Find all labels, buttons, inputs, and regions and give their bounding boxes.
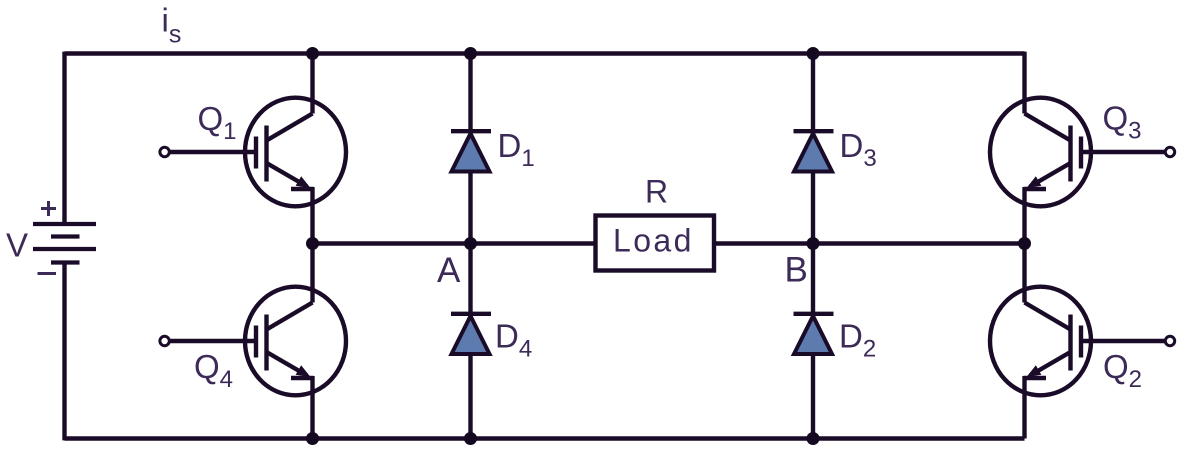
wire left rail lower xyxy=(62,263,66,441)
wire mid rail left (node to load) xyxy=(313,241,596,245)
svg-text:Q3: Q3 xyxy=(1103,100,1142,145)
svg-text:D1: D1 xyxy=(498,127,535,172)
node mid-right junction xyxy=(1018,237,1031,250)
svg-text:Q4: Q4 xyxy=(194,348,233,393)
svg-text:A: A xyxy=(437,251,461,290)
resistor R load box xyxy=(596,216,715,271)
diode D3 xyxy=(794,52,834,244)
svg-text:D4: D4 xyxy=(495,318,532,363)
svg-text:Q2: Q2 xyxy=(1103,348,1142,393)
transistor Q3 xyxy=(990,52,1175,244)
diode D1 xyxy=(451,52,491,244)
wire mid rail right (load to right rail) xyxy=(714,241,1025,245)
svg-text:D3: D3 xyxy=(840,127,877,172)
battery minus sign xyxy=(38,272,57,275)
node A xyxy=(464,237,477,250)
node top D3 junction xyxy=(807,47,820,60)
transistor Q4 xyxy=(160,244,346,439)
node B xyxy=(807,237,820,250)
node bottom-left junction xyxy=(306,432,319,445)
node mid-left junction xyxy=(306,237,319,250)
svg-text:V: V xyxy=(6,227,28,264)
svg-text:Q1: Q1 xyxy=(198,100,237,145)
wire left rail upper xyxy=(62,52,66,224)
node top D1 junction xyxy=(464,47,477,60)
wire bottom rail xyxy=(65,436,1025,440)
svg-text:R: R xyxy=(645,174,668,210)
diode D2 xyxy=(794,244,834,439)
transistor Q1 xyxy=(160,52,346,244)
battery V xyxy=(33,224,96,263)
node bottom D2 junction xyxy=(807,432,820,445)
svg-text:B: B xyxy=(785,251,808,290)
battery plus sign xyxy=(41,201,56,216)
svg-text:Load: Load xyxy=(613,223,694,259)
svg-text:D2: D2 xyxy=(839,318,876,363)
node bottom D4 junction xyxy=(464,432,477,445)
svg-text:is: is xyxy=(162,2,182,49)
diode D4 xyxy=(451,244,491,439)
node top-left junction xyxy=(306,47,319,60)
wire top rail xyxy=(65,51,1025,55)
transistor Q2 xyxy=(990,244,1175,439)
